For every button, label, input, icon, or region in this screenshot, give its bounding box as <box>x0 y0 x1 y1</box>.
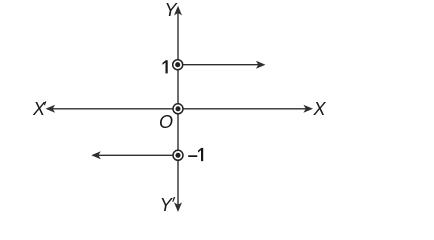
Y axis bottom arrowhead <box>174 202 182 212</box>
svg-text:X: X <box>313 99 327 119</box>
X axis (horizontal line) <box>52 108 306 110</box>
ray from point (0,-1) pointing left <box>98 154 173 156</box>
point (0,-1) circle <box>173 150 183 160</box>
X axis left arrowhead <box>46 105 56 113</box>
prime of Y' (drawn) <box>172 197 175 202</box>
label 1 (drawn digit, no foot serif) <box>163 60 168 73</box>
right ray arrowhead <box>256 61 266 69</box>
ray from point (0,1) pointing right <box>183 64 259 66</box>
point (0,1) dot <box>175 62 180 67</box>
point (0,1) circle <box>173 60 183 70</box>
Y axis (vertical line) <box>177 13 179 205</box>
svg-text:O: O <box>159 112 173 132</box>
svg-text:Y: Y <box>160 195 174 215</box>
label digit 1 of -1 (drawn, no foot serif) <box>198 148 203 161</box>
left ray arrowhead <box>91 151 101 159</box>
point (0,-1) dot <box>175 153 180 158</box>
svg-text:X: X <box>32 99 46 119</box>
origin dot <box>175 106 180 111</box>
X axis right arrowhead <box>303 105 313 113</box>
Y axis top arrowhead <box>174 6 182 16</box>
label minus of -1 <box>188 155 197 157</box>
svg-text:Y: Y <box>165 0 179 20</box>
origin circle <box>173 104 183 114</box>
prime of X' (drawn) <box>44 101 46 105</box>
